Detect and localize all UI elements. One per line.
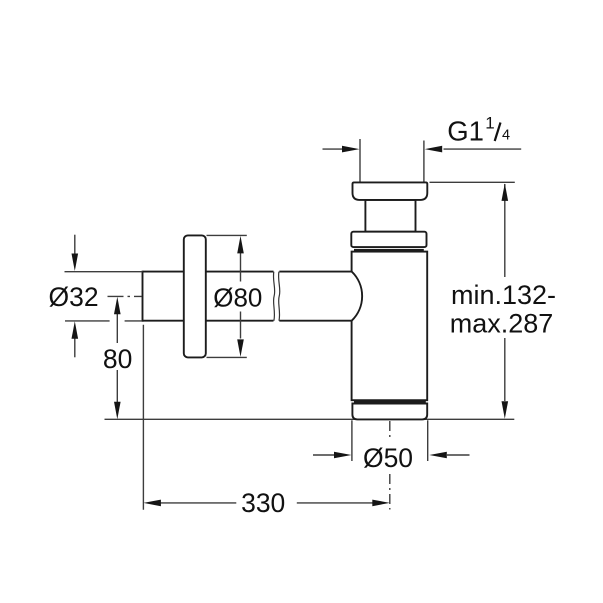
svg-text:min.132-: min.132- bbox=[451, 280, 556, 310]
svg-text:Ø32: Ø32 bbox=[49, 282, 99, 312]
svg-text:G1: G1 bbox=[447, 116, 484, 147]
svg-text:80: 80 bbox=[103, 344, 132, 374]
svg-text:max.287: max.287 bbox=[450, 308, 554, 338]
svg-text:Ø50: Ø50 bbox=[363, 443, 413, 473]
svg-text:1: 1 bbox=[485, 113, 494, 132]
svg-text:4: 4 bbox=[502, 128, 510, 144]
svg-text:Ø80: Ø80 bbox=[213, 283, 262, 313]
svg-text:330: 330 bbox=[241, 488, 285, 518]
